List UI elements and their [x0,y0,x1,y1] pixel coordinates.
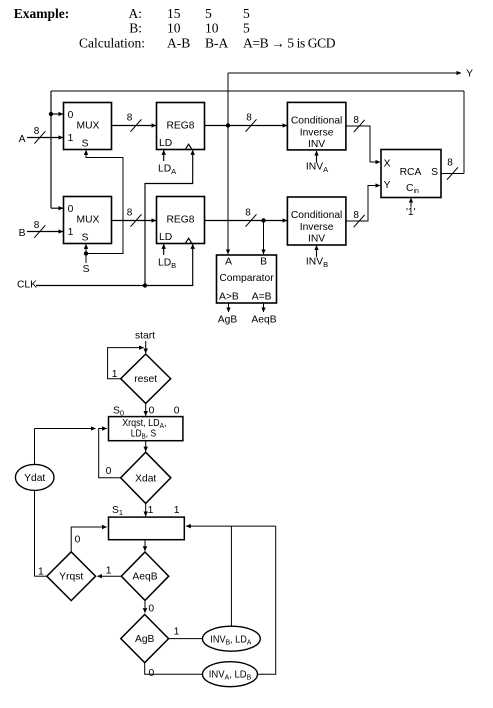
svg-text:S: S [83,264,90,275]
svg-text:AgB: AgB [218,315,238,326]
svg-text:8: 8 [353,115,359,126]
svg-text:0: 0 [174,406,180,417]
svg-text:1: 1 [68,133,74,144]
svg-text:A=B: A=B [252,292,272,303]
svg-text:8: 8 [127,112,133,123]
svg-text:A-B: A-B [167,36,190,51]
svg-text:8: 8 [127,207,133,218]
svg-text:'1': '1' [406,207,416,218]
svg-text:B:: B: [129,21,142,36]
svg-text:S: S [82,139,89,150]
svg-text:INVB, LDA: INVB, LDA [210,634,251,646]
svg-text:LD: LD [159,232,172,243]
svg-text:Ydat: Ydat [24,473,45,484]
svg-text:0: 0 [106,466,112,477]
svg-text:REG8: REG8 [166,215,194,226]
svg-text:1: 1 [38,567,44,578]
svg-text:INVA, LDB: INVA, LDB [209,670,252,682]
svg-text:Calculation:: Calculation: [79,36,145,51]
svg-text:INV: INV [308,233,325,244]
svg-text:0: 0 [149,668,155,679]
svg-text:8: 8 [246,112,252,123]
svg-text:1: 1 [148,505,154,516]
svg-text:10: 10 [205,21,219,36]
svg-text:AeqB: AeqB [132,572,157,583]
svg-text:MUX: MUX [77,215,100,226]
svg-text:8: 8 [34,126,40,137]
svg-text:1: 1 [68,227,74,238]
svg-text:0: 0 [149,406,155,417]
svg-text:1: 1 [174,627,180,638]
svg-text:Conditional: Conditional [291,210,343,221]
svg-text:Yrqst: Yrqst [59,572,83,583]
svg-text:1: 1 [112,369,118,380]
svg-text:B: B [19,228,26,239]
svg-text:5: 5 [205,6,212,21]
svg-text:5: 5 [243,6,250,21]
svg-text:A:: A: [129,6,143,21]
svg-text:AeqB: AeqB [251,315,276,326]
svg-text:8: 8 [353,210,359,221]
svg-text:A: A [225,257,232,268]
svg-text:MUX: MUX [77,121,100,132]
svg-text:REG8: REG8 [166,121,194,132]
svg-text:CLK: CLK [17,279,37,290]
svg-text:10: 10 [167,21,181,36]
svg-text:A: A [19,134,26,145]
svg-text:0: 0 [148,603,154,614]
svg-text:A=B → 5 is GCD: A=B → 5 is GCD [243,36,336,51]
svg-text:S: S [82,233,89,244]
svg-text:A>B: A>B [219,292,239,303]
svg-text:Comparator: Comparator [219,273,274,284]
svg-text:Inverse: Inverse [300,127,334,138]
svg-text:RCA: RCA [400,167,422,178]
svg-text:0: 0 [68,110,74,121]
svg-text:8: 8 [245,207,251,218]
svg-text:Example:: Example: [14,6,70,21]
svg-text:0: 0 [68,204,74,215]
svg-text:8: 8 [34,220,40,231]
svg-text:B: B [260,257,267,268]
svg-text:Xdat: Xdat [135,473,156,484]
svg-text:INV: INV [308,139,325,150]
svg-text:8: 8 [447,158,453,169]
svg-text:Conditional: Conditional [291,116,343,127]
svg-text:Inverse: Inverse [300,222,334,233]
svg-text:0: 0 [75,535,81,546]
svg-text:AgB: AgB [135,634,155,645]
svg-text:S: S [431,167,438,178]
svg-text:1: 1 [106,566,112,577]
svg-text:reset: reset [134,374,157,385]
svg-text:5: 5 [243,21,250,36]
svg-text:B-A: B-A [205,36,229,51]
svg-text:LD: LD [159,138,172,149]
svg-text:15: 15 [167,6,181,21]
svg-text:Y: Y [384,180,391,191]
svg-text:Y: Y [466,69,473,80]
svg-text:X: X [384,159,391,170]
svg-text:start: start [135,331,155,342]
svg-text:1: 1 [174,505,180,516]
